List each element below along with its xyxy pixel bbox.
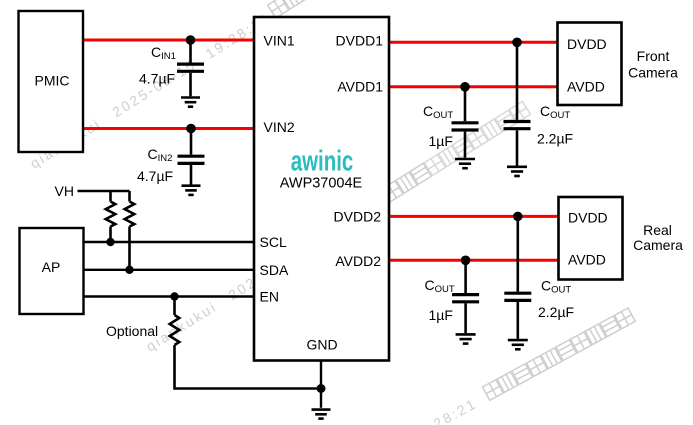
PMIC box [19, 11, 84, 152]
svg-text:DVDD1: DVDD1 [336, 33, 384, 49]
svg-text:PMIC: PMIC [35, 73, 70, 89]
wire DVDD1 to Front camera (red) [389, 41, 558, 44]
ground (CIN2) [182, 186, 201, 195]
wire AVDD2 to Real camera (red) [389, 259, 559, 262]
svg-text:SDA: SDA [260, 262, 289, 278]
node junction SCL/R1 [106, 238, 114, 246]
resistor R2 (VH pull-up to SDA) [125, 191, 135, 270]
svg-text:AVDD: AVDD [568, 252, 606, 268]
svg-text:4.7µF: 4.7µF [139, 71, 175, 87]
ground (COUT 1uF real) [456, 334, 476, 343]
svg-text:CIN2: CIN2 [148, 146, 173, 164]
svg-text:COUT: COUT [425, 277, 455, 295]
watermark row 2 [142, 101, 532, 354]
node junction VIN2/CIN2 [186, 124, 196, 134]
node junction AVDD1/COUT [460, 82, 470, 92]
wire PMIC to VIN1 (red) [83, 39, 254, 42]
ground (main GND) [312, 410, 331, 419]
node junction EN/R3 [170, 292, 178, 300]
svg-text:COUT: COUT [423, 103, 453, 121]
wire EN [84, 295, 255, 297]
svg-text:awinic: awinic [291, 145, 354, 177]
resistor R1 (VH pull-up to SCL) [106, 191, 116, 242]
svg-text:DVDD: DVDD [567, 36, 607, 52]
svg-text:GND: GND [307, 337, 338, 353]
capacitor CIN1 [177, 40, 204, 96]
node junction DVDD1/COUT [512, 38, 522, 48]
watermark row 1 [26, 0, 361, 172]
svg-text:DVDD2: DVDD2 [334, 208, 382, 224]
svg-text:Real: Real [643, 222, 672, 238]
wire SDA [84, 269, 255, 271]
wire PMIC to VIN2 (red) [83, 127, 254, 130]
svg-text:DVDD: DVDD [568, 210, 608, 226]
node junction AVDD2/COUT [461, 255, 471, 265]
svg-text:Camera: Camera [633, 237, 683, 253]
capacitor COUT 2.2uF (front) [504, 42, 531, 165]
capacitor COUT 2.2uF (real) [504, 216, 531, 339]
capacitor COUT 1uF (front) [452, 87, 479, 158]
node junction GND [317, 384, 326, 393]
svg-text:AVDD2: AVDD2 [335, 253, 381, 269]
watermark row 3 [430, 308, 637, 425]
svg-text:AVDD1: AVDD1 [337, 79, 383, 95]
capacitor CIN2 [178, 129, 205, 185]
svg-text:4.7µF: 4.7µF [137, 168, 173, 184]
svg-text:VIN2: VIN2 [264, 119, 295, 135]
ground (COUT 2.2uF front) [507, 167, 527, 176]
AP box [20, 228, 84, 314]
ground (COUT 2.2uF real) [508, 340, 528, 349]
Real camera box [559, 197, 623, 280]
wire EN pulldown bottom horizontal [175, 387, 322, 389]
wire AVDD1 to Front camera (red) [389, 85, 558, 88]
awinic logo [291, 145, 354, 177]
svg-text:VH: VH [55, 183, 74, 199]
node junction DVDD2/COUT [513, 212, 523, 222]
svg-text:Camera: Camera [628, 65, 678, 81]
resistor R3 (optional EN pulldown) [170, 297, 180, 390]
svg-text:Optional: Optional [106, 323, 158, 339]
ground (CIN1) [181, 98, 200, 107]
svg-text:1µF: 1µF [429, 307, 453, 323]
svg-text:AVDD: AVDD [567, 79, 605, 95]
svg-text:SCL: SCL [260, 234, 287, 250]
wire DVDD2 to Real camera (red) [389, 215, 559, 218]
IC U1 AWP37004E box [254, 17, 389, 361]
ground (COUT 1uF front) [455, 159, 475, 168]
wire SCL [84, 241, 255, 243]
svg-text:2.2µF: 2.2µF [537, 131, 573, 147]
node junction SDA/R2 [125, 266, 133, 274]
svg-text:2.2µF: 2.2µF [538, 304, 574, 320]
svg-text:AWP37004E: AWP37004E [280, 176, 363, 192]
svg-text:CIN1: CIN1 [151, 44, 176, 62]
svg-text:1µF: 1µF [429, 133, 453, 149]
wire GND pin stem [320, 361, 322, 408]
svg-text:28:21: 28:21 [431, 395, 480, 425]
svg-text:VIN1: VIN1 [264, 33, 295, 49]
label Real Camera [633, 222, 683, 253]
node junction VIN1/CIN1 [186, 35, 196, 45]
svg-text:AP: AP [42, 259, 61, 275]
capacitor COUT 1uF (real) [452, 260, 479, 333]
Front camera box [558, 23, 622, 106]
label Front Camera [628, 48, 678, 81]
wire VH horizontal [78, 190, 130, 192]
svg-text:Front: Front [637, 48, 670, 64]
svg-text:EN: EN [260, 289, 279, 305]
